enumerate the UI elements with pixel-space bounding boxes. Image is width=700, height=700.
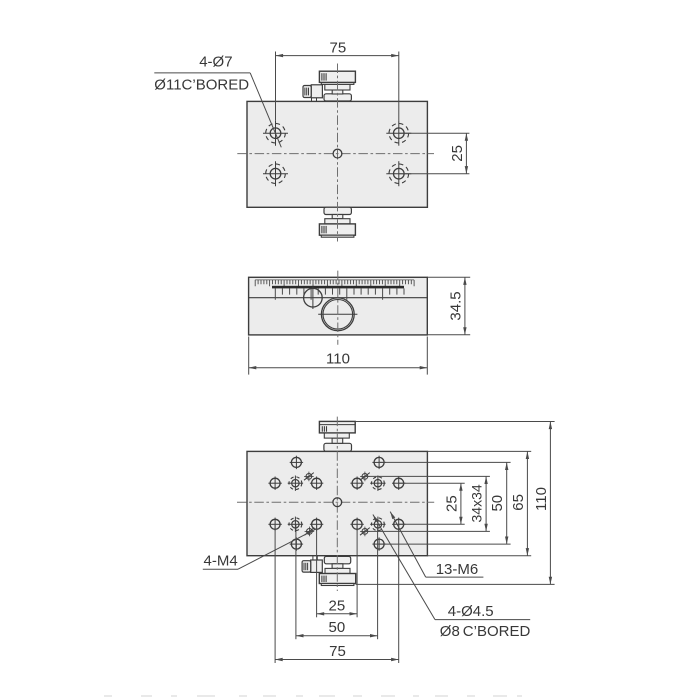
M6 hole row C inner-right xyxy=(350,518,363,531)
svg-text:Ø11C’BORED: Ø11C’BORED xyxy=(154,77,249,94)
side view plate xyxy=(249,277,428,335)
dimension 50 (bottom view bottom) xyxy=(296,524,378,639)
counterbored hole Ø4.5 lower-left xyxy=(288,517,303,532)
top view vertical centerline xyxy=(337,64,339,242)
counterbored hole Ø4.5 lower-right xyxy=(370,517,385,532)
M6 hole row B inner-left xyxy=(310,477,323,490)
vernier scale dark band xyxy=(272,286,404,289)
bottom view vertical centerline xyxy=(336,417,338,591)
M4 tapped hole lower-left xyxy=(305,527,315,537)
M4 tapped hole lower-right xyxy=(360,527,370,537)
top view plate xyxy=(247,101,427,207)
svg-text:50: 50 xyxy=(329,619,346,636)
M6 hole row A right xyxy=(372,456,385,469)
bottom view horizontal centerline xyxy=(237,501,434,503)
bottom view top micrometer knob xyxy=(319,421,355,451)
dimension 25 (top view right) xyxy=(399,133,470,174)
M6 hole row C outer-left xyxy=(268,518,281,531)
bottom view lock knob (left of bottom knob) xyxy=(302,556,322,573)
top view center hole xyxy=(333,149,342,158)
svg-text:75: 75 xyxy=(329,643,346,660)
dimension 25 (bottom view bottom) xyxy=(317,524,358,617)
svg-text:25: 25 xyxy=(449,145,466,162)
bottom view center hole M6 xyxy=(333,498,342,507)
top view horizontal centerline xyxy=(237,153,434,155)
M4 tapped hole upper-right xyxy=(360,472,370,482)
svg-text:4-Ø4.5: 4-Ø4.5 xyxy=(448,603,494,620)
counterbored hole Ø4.5 upper-right xyxy=(370,476,385,491)
M6 hole row C inner-left xyxy=(310,518,323,531)
top view lock knob (left of top knob) xyxy=(303,85,322,102)
side view large knob circle xyxy=(318,298,357,331)
counterbored hole Ø4.5 upper-left xyxy=(288,476,303,491)
svg-text:Ø8 C’BORED: Ø8 C’BORED xyxy=(440,623,531,640)
side view vertical centerline xyxy=(337,271,339,345)
top view top micrometer knob xyxy=(319,71,355,101)
svg-text:25: 25 xyxy=(443,495,460,512)
M6 hole row D right xyxy=(372,537,385,550)
counterbored hole 4-Ø7 bottom-left xyxy=(263,161,288,186)
dimension 75 (top) xyxy=(276,39,399,121)
M6 hole row B outer-left xyxy=(268,477,281,490)
svg-text:34.5: 34.5 xyxy=(447,291,464,320)
dimension 34x34 (bottom view right) xyxy=(365,476,490,531)
svg-text:13-M6: 13-M6 xyxy=(436,561,479,578)
dimension 75 (bottom view bottom) xyxy=(275,524,399,663)
vernier scale fine ticks xyxy=(255,280,414,286)
bottom view bottom micrometer knob xyxy=(319,556,355,585)
dimension 25 (bottom view right) xyxy=(399,483,465,524)
dimension 50 (bottom view right) xyxy=(379,462,511,544)
counterbored hole 4-Ø7 top-left xyxy=(263,121,288,146)
svg-text:4-Ø7: 4-Ø7 xyxy=(199,54,232,71)
M6 hole row B inner-right xyxy=(350,477,363,490)
counterbored hole 4-Ø7 top-right xyxy=(386,121,411,146)
dimension 34.5 (side view right) xyxy=(427,277,470,335)
vernier scale lower ticks xyxy=(275,288,404,299)
M6 hole row A left xyxy=(290,456,303,469)
M4 tapped hole upper-left xyxy=(304,472,314,482)
svg-text:110: 110 xyxy=(533,487,550,511)
svg-text:50: 50 xyxy=(489,495,506,512)
dimension 65 (bottom view right) xyxy=(427,451,531,555)
svg-text:34x34: 34x34 xyxy=(469,484,485,522)
svg-text:110: 110 xyxy=(326,351,350,368)
side view small knob circle xyxy=(304,287,323,310)
svg-text:25: 25 xyxy=(329,597,346,614)
label 13-M6 with leader xyxy=(390,512,483,578)
counterbored hole 4-Ø7 bottom-right xyxy=(386,161,411,186)
faint cropped caption remnants at page bottom xyxy=(104,695,522,697)
M6 hole row C outer-right xyxy=(392,518,405,531)
bottom view plate xyxy=(247,451,427,555)
label 4-Ø4.5 / Ø8 C&#8217;BORED with leader xyxy=(373,515,531,640)
M6 hole row D left xyxy=(290,537,303,550)
label 4-Ø7 / Ø11 C&#8217;BORED with leader xyxy=(154,54,281,148)
dimension 110 (side view bottom) xyxy=(249,337,428,375)
svg-text:75: 75 xyxy=(330,39,347,56)
label 4-M4 with leader xyxy=(203,529,317,570)
top view bottom micrometer knob xyxy=(319,207,355,237)
svg-text:65: 65 xyxy=(510,494,527,511)
side view split line xyxy=(249,297,428,299)
dimension 110 (bottom view right, overall) xyxy=(355,422,554,585)
M6 hole row B outer-right xyxy=(392,477,405,490)
svg-text:4-M4: 4-M4 xyxy=(204,553,238,570)
